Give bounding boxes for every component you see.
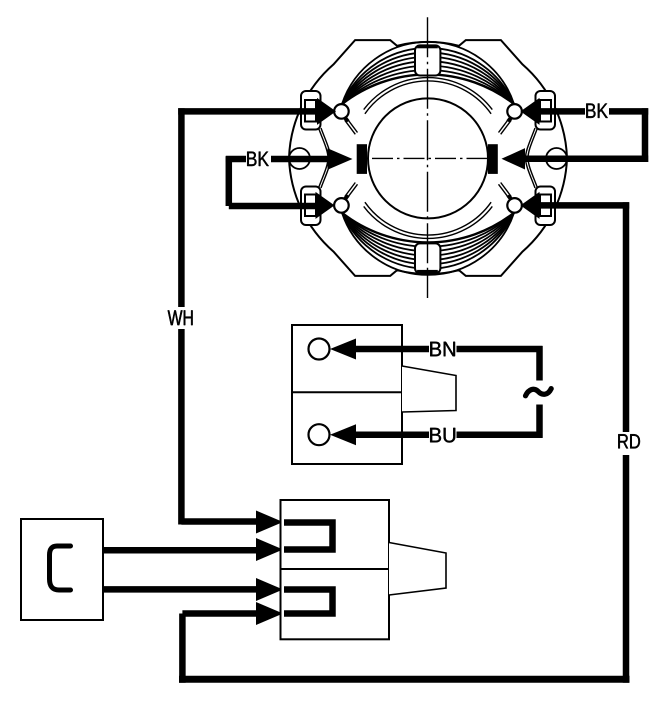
terminal holder bottom-right [536, 187, 556, 226]
wire BK left: label to brush arrow [271, 156, 328, 163]
arrow into right brush [502, 148, 526, 169]
rotor bore circle [368, 98, 488, 218]
arrow into connector pin 2 [256, 538, 283, 561]
wire BK right: arrow to label [540, 108, 586, 115]
wire RD bottom run [179, 676, 630, 683]
label BN [430, 342, 455, 356]
left side hole [289, 148, 310, 169]
wire BK left lower horizontal [229, 203, 315, 210]
left lamination joint curve [319, 128, 329, 188]
terminal holder bottom-left [301, 187, 321, 226]
wire BN corner vertical [536, 346, 543, 381]
arrow into terminal top-left [317, 98, 336, 125]
wire BK left vertical [226, 156, 233, 206]
bottom pole face arcs [365, 202, 491, 235]
AC source tilde [526, 389, 552, 396]
arrow into connector pin 1 [256, 511, 283, 534]
wire RD vertical lower [623, 455, 630, 683]
wire WH bottom horizontal into connector [181, 518, 256, 525]
wire BU horizontal [457, 431, 543, 438]
label RD [618, 434, 640, 448]
arrow into terminal top-right [521, 98, 540, 125]
label WH [168, 310, 193, 325]
right lamination joint curve [528, 128, 538, 188]
stator outer lamination outline [289, 40, 567, 276]
bottom coil retainer tab [415, 243, 440, 273]
motor connector divider [281, 568, 390, 570]
label BU [430, 428, 455, 443]
terminal circle bottom-left [334, 198, 349, 213]
terminal lead stub bottom-left [342, 195, 348, 203]
bridge link pins 3-4 [284, 590, 333, 614]
arrow into connector pin 3 [256, 578, 283, 601]
wire capacitor upper [103, 547, 256, 554]
bridge link pins 1-2 [284, 523, 333, 550]
terminal lead stub top-left [342, 114, 348, 122]
arrow into terminal bottom-right [521, 192, 540, 219]
terminal holder top-left [301, 91, 321, 130]
supply block cable gland [402, 366, 456, 412]
wire BK left: stub left of label [226, 156, 246, 163]
wire capacitor lower [103, 586, 256, 593]
wire RD into connector pin 4 [182, 610, 256, 617]
capacitor C symbol [50, 546, 71, 590]
terminal circle bottom-right [507, 198, 522, 213]
wire BK right: label to corner [609, 108, 648, 115]
terminal circle top-left [334, 104, 349, 119]
arrow into left brush [328, 148, 353, 169]
wire RD horizontal from terminal [540, 202, 630, 209]
arrow into supply terminal bottom [330, 424, 356, 445]
motor connector block [281, 500, 390, 639]
motor connector cable gland [389, 543, 446, 596]
wire BK right vertical [642, 108, 649, 162]
center line vertical (dash-dot) [427, 17, 429, 298]
left carbon brush [357, 144, 367, 174]
wire BU corner vertical [536, 405, 543, 438]
center line horizontal (dash-dot) [372, 157, 488, 159]
wire RD left vertical to connector [179, 614, 186, 683]
terminal lead stub top-right [508, 114, 514, 122]
supply terminal circle top [309, 339, 330, 360]
arrow into connector pin 4 [256, 602, 283, 625]
wire BK right horizontal to brush [525, 156, 648, 163]
arrow into terminal bottom-left [316, 192, 335, 219]
terminal lead stub bottom-right [508, 195, 514, 203]
right carbon brush [488, 144, 498, 174]
supply block divider [292, 391, 402, 393]
top pole face arcs [365, 81, 491, 114]
wire BN horizontal [356, 346, 429, 353]
supply terminal circle bottom [309, 424, 330, 445]
terminal circle top-right [507, 104, 522, 119]
supply terminal block [292, 325, 402, 464]
wire RD vertical upper [623, 202, 630, 432]
top field coil winding [342, 42, 514, 104]
capacitor box [21, 519, 103, 620]
terminal holder top-right [536, 91, 556, 130]
top coil retainer tab [415, 45, 440, 75]
label BK left [247, 152, 269, 166]
wire WH vertical run [178, 108, 185, 307]
label BK right [586, 104, 608, 118]
bottom field coil winding [342, 213, 514, 275]
right side hole [546, 148, 567, 169]
arrow into supply terminal top [330, 339, 356, 360]
wire WH top horizontal to stator terminal [178, 108, 317, 115]
